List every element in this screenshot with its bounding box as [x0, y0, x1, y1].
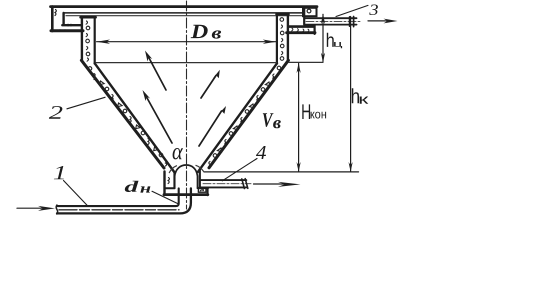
hatch mark box a: [200, 189, 203, 191]
hatch mark box left wall: [168, 178, 169, 184]
label 1: [54, 166, 64, 179]
right collection channel bottom: [287, 31, 315, 34]
hatch square a: [198, 188, 206, 193]
right cylinder wall inner: [276, 15, 278, 64]
feed pipe inner: [57, 188, 179, 206]
discharge box left wall inner: [173, 173, 175, 189]
dome skirt left: [169, 166, 176, 173]
leader to pipe 1: [64, 181, 89, 207]
inlet flow arrow: [17, 207, 43, 209]
interior flow arrow A4: [199, 111, 222, 146]
centerline: [186, 1, 188, 209]
left overflow gutter: [51, 7, 54, 32]
feed pipe riser and elbow outer: [57, 188, 191, 213]
baseline: [204, 171, 359, 173]
sludge pipe 4 bottom: [201, 186, 247, 188]
right wall cap: [276, 13, 288, 15]
dimension h_c: [322, 14, 324, 61]
leader to cone wall: [67, 97, 105, 109]
right cone wall inner: [198, 63, 277, 172]
discharge box right end: [207, 188, 209, 195]
label d_n: [125, 181, 139, 192]
deflector dome: [175, 165, 198, 188]
discharge box right wall: [199, 170, 201, 189]
right collection channel wall: [314, 25, 316, 34]
right cylinder wall outer: [287, 14, 289, 61]
discharge box floor: [165, 187, 208, 189]
sludge pipe 4 top: [201, 179, 247, 181]
hatch marks left cylinder wall: [86, 21, 90, 61]
hatch marks left gutter: [55, 10, 56, 16]
left wall cap: [81, 16, 96, 19]
pipe 4 outflow arrow: [254, 183, 289, 185]
pipe 3 centerline: [306, 20, 362, 22]
cone top reference line: [289, 61, 323, 63]
pipe 3 left joint: [303, 8, 305, 25]
left cone wall inner: [95, 63, 175, 172]
interior flow arrow A2: [147, 97, 173, 143]
label h_k: [352, 88, 359, 103]
left cylinder wall outer: [81, 17, 83, 61]
dimension H_kon: [298, 63, 300, 171]
left cone wall outer: [81, 60, 164, 168]
pipe 3 end cap: [350, 17, 354, 27]
feed pipe middle line: [59, 209, 179, 211]
right collection channel floor: [289, 25, 314, 28]
pipe 3 outflow arrow: [368, 20, 387, 22]
hatch marks right channel floor: [292, 28, 309, 32]
leader to pipe 4: [222, 159, 257, 181]
pipe 4 centerline: [203, 183, 251, 185]
water level line: [96, 62, 276, 64]
left cylinder wall inner: [94, 18, 96, 64]
label H_kon: [302, 104, 310, 119]
top rim: [51, 5, 318, 8]
label 4: [256, 146, 266, 159]
label 2: [49, 106, 63, 119]
discharge box bottom plate: [164, 193, 208, 196]
outlet pipe support block: [303, 8, 317, 16]
leader to pipe 3: [336, 5, 368, 16]
label alpha: [173, 148, 183, 159]
right cone wall outer: [209, 60, 288, 168]
discharge box left wall outer: [163, 172, 165, 196]
outlet pipe 3: [305, 17, 357, 19]
pipe 4 end cap: [242, 179, 248, 189]
dimension h_k: [350, 17, 352, 172]
hatch marks right cylinder wall: [280, 18, 284, 61]
label h_c: [327, 33, 334, 47]
label V_v: [263, 113, 274, 127]
interior flow arrow A3: [201, 76, 216, 99]
hatch marks right cone wall: [209, 66, 281, 164]
leader d_n: [152, 191, 178, 203]
label 3: [369, 5, 378, 16]
feed pipe end cap: [56, 205, 58, 214]
hatch marks left cone wall: [88, 67, 167, 166]
interior flow arrow A1: [149, 57, 167, 90]
label D_v: [191, 25, 208, 38]
dome skirt right: [196, 165, 203, 171]
dimension D_v line: [97, 41, 277, 43]
